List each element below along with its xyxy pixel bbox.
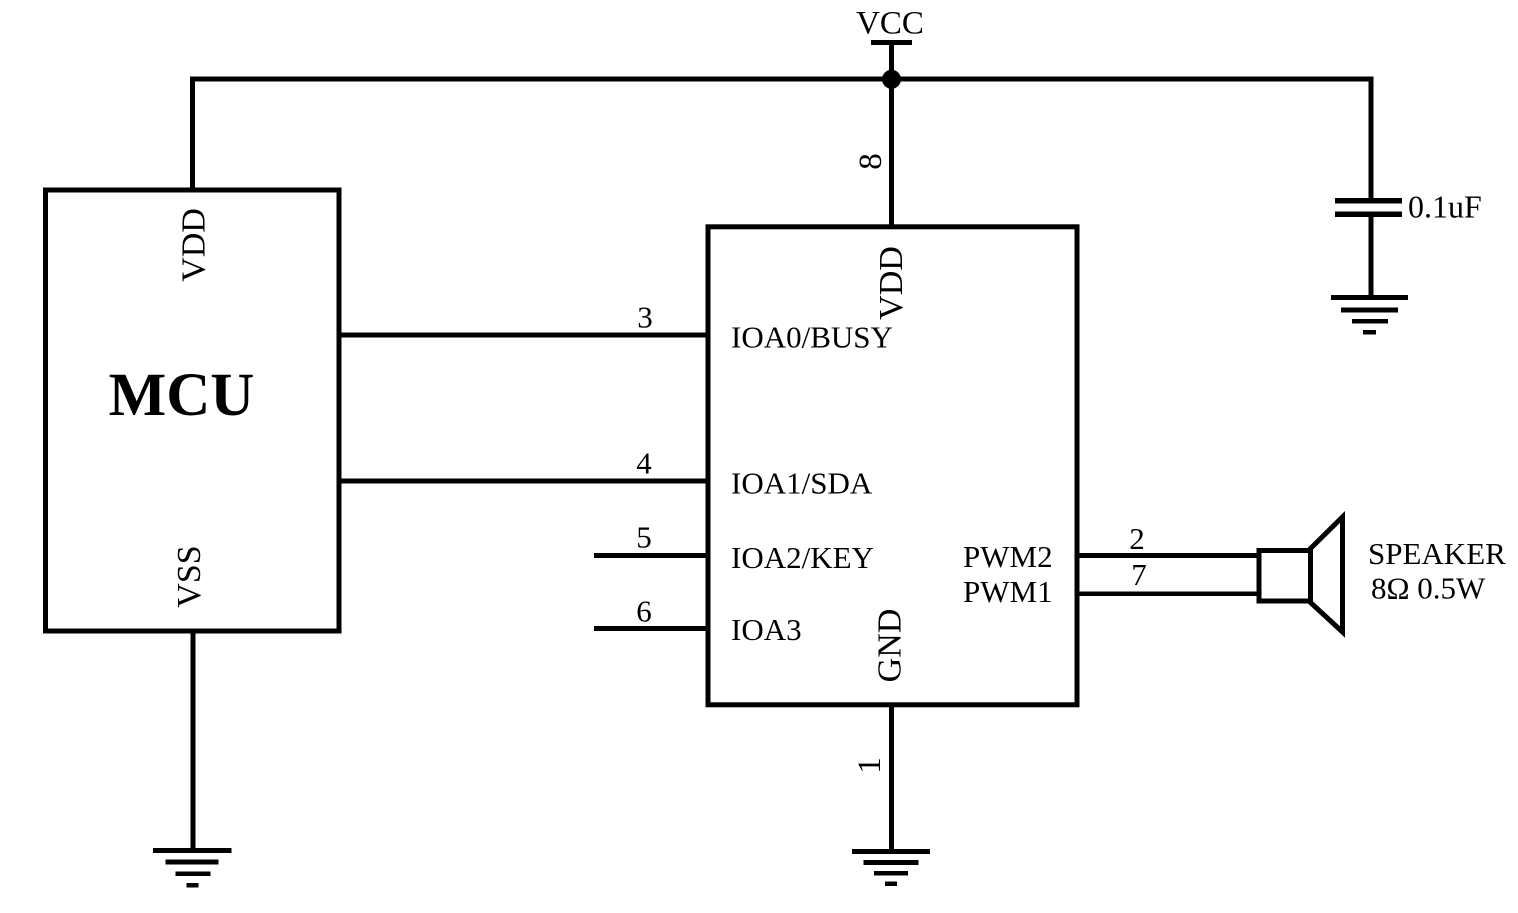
speaker LS1 body — [1259, 551, 1311, 602]
svg-text:VDD: VDD — [176, 208, 213, 282]
svg-text:3: 3 — [637, 300, 653, 335]
ground (MCU VSS) — [153, 848, 232, 888]
svg-text:8: 8 — [853, 153, 889, 170]
svg-text:IOA0/BUSY: IOA0/BUSY — [731, 320, 893, 355]
svg-text:GND: GND — [872, 609, 909, 683]
capacitor C1 bottom plate — [1335, 212, 1402, 218]
ground (capacitor) — [1331, 295, 1408, 335]
ground (chip GND) — [852, 849, 930, 886]
wire: top VCC rail horizontal — [190, 77, 1374, 82]
wire: pin 8 vertical from junction to chip VDD — [889, 79, 894, 227]
chip U1 box — [708, 227, 1077, 705]
wire: stub to chip pin 5 — [594, 553, 708, 558]
wire: MCU VSS to ground — [191, 631, 196, 850]
svg-text:PWM2: PWM2 — [963, 539, 1053, 574]
speaker LS1 horn — [1311, 517, 1343, 632]
svg-text:6: 6 — [636, 594, 652, 629]
svg-text:IOA3: IOA3 — [731, 612, 802, 647]
wire: MCU to chip pin 3 — [337, 333, 708, 338]
svg-text:IOA1/SDA: IOA1/SDA — [731, 466, 873, 501]
svg-text:2: 2 — [1129, 521, 1145, 556]
svg-text:7: 7 — [1131, 557, 1147, 592]
capacitor C1 top plate — [1335, 198, 1402, 204]
wire: MCU to chip pin 4 — [337, 479, 708, 484]
svg-text:VCC: VCC — [856, 6, 924, 42]
wire: chip GND pin 1 to ground — [889, 705, 894, 851]
svg-text:MCU: MCU — [109, 362, 255, 429]
svg-text:1: 1 — [852, 757, 888, 774]
svg-text:VSS: VSS — [171, 545, 208, 607]
svg-text:IOA2/KEY: IOA2/KEY — [731, 540, 874, 575]
svg-text:4: 4 — [636, 446, 652, 481]
wire: vertical drop from VCC rail to MCU VDD pin — [190, 77, 195, 191]
svg-text:VDD: VDD — [873, 246, 910, 320]
node: junction dot on VCC rail — [882, 70, 901, 89]
svg-text:5: 5 — [636, 520, 652, 555]
wire: vertical drop from VCC rail to capacitor — [1369, 77, 1374, 200]
wire: stub to chip pin 6 — [594, 626, 708, 631]
wire: chip PWM2 to speaker, pin 2 — [1077, 553, 1258, 558]
power symbol VCC — [856, 6, 924, 83]
MCU U2 box — [46, 190, 340, 631]
svg-text:PWM1: PWM1 — [963, 574, 1053, 609]
wire: capacitor to ground — [1369, 215, 1374, 297]
svg-text:SPEAKER: SPEAKER — [1368, 536, 1506, 571]
wire: chip PWM1 to speaker, pin 7 — [1077, 592, 1258, 597]
svg-text:0.1uF: 0.1uF — [1408, 189, 1482, 225]
svg-text:8Ω 0.5W: 8Ω 0.5W — [1371, 571, 1486, 606]
